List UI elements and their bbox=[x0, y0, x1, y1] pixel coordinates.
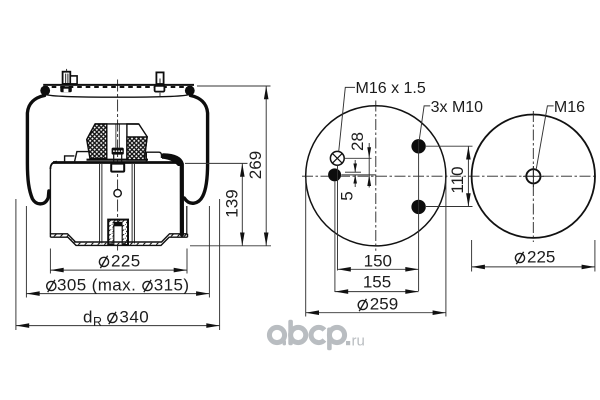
ext line piston top right bbox=[185, 162, 248, 164]
tick 5 upper row bbox=[345, 171, 361, 173]
svg-text:3x M10: 3x M10 bbox=[431, 99, 484, 116]
piston skirt right thin bbox=[186, 206, 188, 234]
svg-text:225: 225 bbox=[527, 248, 555, 267]
watermark letter c bbox=[311, 327, 324, 342]
arrows 139 bbox=[240, 163, 245, 176]
svg-text:315): 315) bbox=[154, 276, 190, 295]
arrows dia225 bbox=[50, 268, 63, 273]
svg-text:305 (max.: 305 (max. bbox=[57, 276, 136, 295]
ext line bottom right bbox=[190, 245, 271, 247]
piston top rim step right bbox=[146, 152, 161, 161]
watermark a tail bbox=[283, 340, 286, 345]
dim line 139 bbox=[241, 163, 243, 245]
bead roll right bbox=[185, 86, 195, 96]
label dia305 max315 bbox=[47, 280, 152, 292]
piston inner tube walls bbox=[99, 164, 101, 244]
ext lines dia259 bbox=[305, 178, 307, 317]
vertical centerline bbox=[375, 101, 377, 251]
M10 hole upper bbox=[411, 139, 425, 153]
svg-text:M16 x 1.5: M16 x 1.5 bbox=[356, 80, 426, 97]
nut under plate left bbox=[60, 86, 72, 92]
nut under plate right bbox=[155, 86, 165, 92]
svg-text:269: 269 bbox=[246, 151, 265, 179]
svg-text:225: 225 bbox=[111, 252, 141, 271]
stud M16 left bbox=[63, 72, 71, 84]
stud M16 right bbox=[156, 72, 163, 84]
svg-text:R: R bbox=[93, 315, 102, 329]
watermark letter b bbox=[291, 327, 306, 342]
svg-text:5: 5 bbox=[338, 191, 357, 200]
piston skirt left bbox=[49, 168, 51, 234]
svg-text:d: d bbox=[83, 308, 92, 327]
bumper center bolt lines bbox=[115, 125, 117, 148]
ext lines dia305 bbox=[25, 206, 27, 298]
rubber bumper left section bbox=[87, 124, 107, 159]
ext line top plate right bbox=[197, 85, 271, 87]
rubber bumper right section bbox=[127, 137, 147, 160]
arrows dia225 right view bbox=[472, 265, 485, 270]
air fitting left bbox=[70, 76, 77, 84]
watermark p stem bbox=[327, 328, 332, 351]
arrows 150 bbox=[338, 267, 351, 272]
svg-text:110: 110 bbox=[448, 166, 467, 193]
label dia225 right view bbox=[515, 252, 524, 264]
piston top surface bbox=[53, 161, 179, 164]
bumper top edge bbox=[95, 123, 139, 125]
tick stud row bbox=[341, 174, 376, 176]
center bolt block bbox=[108, 220, 128, 245]
M10 hole lower bbox=[411, 200, 425, 214]
bolt column line bbox=[418, 140, 420, 291]
ext lines dia340 bbox=[15, 199, 17, 330]
watermark dot bbox=[346, 341, 350, 345]
piston bottom flange profile bbox=[50, 234, 187, 242]
bellows outer wall left bbox=[27, 96, 49, 204]
top view circle bbox=[306, 106, 446, 246]
dim line 150 bbox=[338, 268, 419, 270]
svg-text:28: 28 bbox=[348, 132, 367, 151]
svg-text:M16: M16 bbox=[554, 99, 585, 116]
ticks 110 bbox=[426, 145, 473, 147]
bumper base line bbox=[87, 159, 149, 161]
watermark letter a bbox=[269, 327, 284, 342]
bellows outer wall right bbox=[184, 96, 207, 204]
svg-text:ru: ru bbox=[352, 333, 365, 350]
ext from fitting down bbox=[337, 166, 339, 271]
label dia225 left view bbox=[99, 256, 108, 268]
arrows dia305 bbox=[26, 291, 39, 296]
horizontal centerline shared bbox=[302, 175, 597, 177]
svg-text:150: 150 bbox=[364, 251, 392, 270]
arrows dia259 bbox=[306, 310, 319, 315]
watermark b stem bbox=[288, 320, 293, 345]
stud hole filled bbox=[328, 168, 341, 181]
bottom view circle bbox=[472, 115, 595, 238]
dim line dia259 bbox=[306, 312, 446, 314]
dim line dia305 bbox=[26, 293, 209, 295]
leader M16 bbox=[536, 106, 553, 169]
bellows top attachment line bbox=[46, 95, 189, 98]
bellows wrap over piston right edge bbox=[164, 155, 182, 234]
svg-text:259: 259 bbox=[370, 295, 398, 314]
ext lines dia225 right view bbox=[471, 240, 473, 272]
clamp block with dots bbox=[112, 148, 124, 155]
dim line dia225 right view bbox=[472, 266, 595, 268]
tick fitting row bbox=[345, 157, 372, 159]
center hub M16 bbox=[526, 169, 540, 183]
dim line 269 bbox=[265, 86, 267, 246]
svg-text:155: 155 bbox=[363, 273, 391, 292]
arrows 5 bbox=[353, 164, 357, 173]
ext from stud down bbox=[334, 182, 336, 293]
pilot hole circle bbox=[114, 190, 121, 197]
air fitting M16x1.5 symbol bbox=[330, 151, 344, 165]
vertical centerline bbox=[532, 111, 534, 242]
dim line 5 bbox=[354, 160, 356, 172]
piston top rim steps left bbox=[65, 156, 75, 162]
dim line dia340 bbox=[16, 325, 220, 327]
label dia259 bbox=[358, 299, 367, 311]
arrows 110 bbox=[466, 146, 471, 159]
arrows dia340 bbox=[16, 323, 29, 328]
nut below piston top bbox=[111, 164, 124, 172]
arrows 28 bbox=[367, 147, 371, 158]
piston bottom flange section fill bbox=[50, 235, 187, 245]
centerline axis bbox=[117, 80, 119, 251]
stem below clamp bbox=[113, 155, 115, 164]
svg-text:139: 139 bbox=[222, 189, 241, 217]
dim line 28 bbox=[368, 143, 370, 188]
leader 3x M10 bbox=[419, 106, 430, 139]
dim line dia225 bbox=[50, 269, 187, 271]
leader M16x1.5 bbox=[339, 87, 355, 151]
dim line 155 bbox=[335, 291, 419, 293]
arrows 269 bbox=[264, 86, 269, 99]
arrows 155 bbox=[335, 289, 348, 294]
bead roll left bbox=[40, 86, 50, 96]
rubber bumper right outline bbox=[127, 124, 147, 160]
ext lines dia225 bbox=[49, 249, 51, 274]
dim line 110 bbox=[467, 146, 469, 206]
watermark letter p bbox=[329, 327, 344, 342]
svg-text:340: 340 bbox=[119, 308, 149, 327]
top plate bbox=[43, 84, 194, 86]
piston top-left rounded corner bbox=[50, 162, 57, 169]
